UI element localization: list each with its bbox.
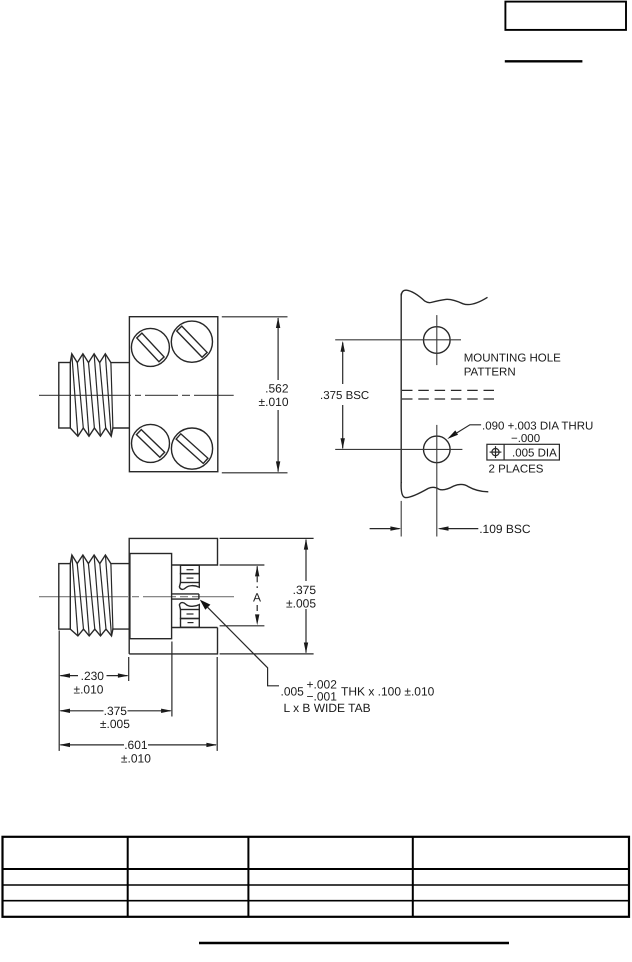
svg-text:±.005: ±.005 xyxy=(286,597,316,611)
bottom dimensions of view2 xyxy=(59,631,217,751)
dimension .375 BSC xyxy=(342,343,344,449)
svg-text:±.010: ±.010 xyxy=(121,751,151,765)
dimension .562 ±.010 xyxy=(222,317,288,473)
title block box (top right, empty) xyxy=(505,2,626,30)
arrowheads .230 xyxy=(59,673,70,677)
bottom break wavy xyxy=(401,482,488,498)
svg-text:±.005: ±.005 xyxy=(100,717,130,731)
svg-text:.375: .375 xyxy=(293,583,317,597)
position symbol xyxy=(492,449,499,456)
ext line flange right xyxy=(216,657,218,751)
arrowhead .562 bottom xyxy=(276,461,280,472)
hole bottom crosshair xyxy=(335,448,462,450)
hole top crosshair xyxy=(335,339,461,341)
svg-text:MOUNTING HOLE: MOUNTING HOLE xyxy=(464,353,561,365)
panel dashed lines xyxy=(402,390,494,399)
flange outline xyxy=(129,538,217,654)
body rectangle view1 xyxy=(129,317,217,472)
dimension .375 ±.005 (side) xyxy=(220,538,314,654)
thread bottom profile side xyxy=(70,629,129,636)
svg-text:.375 BSC: .375 BSC xyxy=(320,390,369,402)
leader .090 xyxy=(447,430,458,439)
label .375 BSC xyxy=(318,384,369,405)
screw top-right xyxy=(171,321,212,362)
leader line to tab note xyxy=(207,607,279,686)
dimension A xyxy=(220,565,265,626)
arrowheads .375 xyxy=(59,709,70,713)
coupling cap rectangle xyxy=(59,363,71,429)
arrowhead .109 right xyxy=(438,526,449,530)
leader arrowhead at tab xyxy=(200,600,211,610)
svg-text:A: A xyxy=(253,590,261,604)
arrowhead .375 side top xyxy=(304,539,308,550)
svg-text:.601: .601 xyxy=(124,738,148,752)
screw bottom-left xyxy=(132,424,170,462)
header underline xyxy=(505,60,583,62)
svg-text:.090 +.003 DIA THRU: .090 +.003 DIA THRU xyxy=(482,420,593,432)
dim line .230 xyxy=(60,675,78,677)
svg-text:.005 DIA: .005 DIA xyxy=(512,447,557,459)
svg-text:±.010: ±.010 xyxy=(259,395,289,409)
footer rule xyxy=(199,942,509,945)
feature control frame xyxy=(487,444,560,460)
center tab xyxy=(172,594,199,599)
coupling cap rectangle side xyxy=(59,564,71,630)
panel edge extension xyxy=(400,501,402,537)
arrowhead .375 BSC top xyxy=(341,341,345,352)
barrel xyxy=(130,554,172,639)
arrowhead A top xyxy=(255,566,259,577)
label .375 ±.005 xyxy=(284,581,318,609)
panel edge line xyxy=(400,294,402,484)
top break wavy xyxy=(401,290,487,304)
arrowheads .601 xyxy=(59,743,70,747)
thread flank lines xyxy=(72,354,113,436)
label .562 ±.010 xyxy=(255,380,291,410)
svg-text:THK x .100 ±.010: THK x .100 ±.010 xyxy=(341,685,435,699)
mounting hole top xyxy=(424,327,451,354)
svg-text:−.000: −.000 xyxy=(511,433,540,445)
svg-text:PATTERN: PATTERN xyxy=(464,367,516,379)
ext line flange left xyxy=(128,657,130,681)
dimension .109 BSC xyxy=(370,528,479,530)
screw bottom-right xyxy=(171,428,212,469)
thread top profile side xyxy=(70,555,129,564)
svg-text:±.010: ±.010 xyxy=(74,682,104,696)
contact stack lower xyxy=(179,603,199,610)
svg-text:L x B WIDE TAB: L x B WIDE TAB xyxy=(284,701,371,715)
contact stack upper xyxy=(181,565,200,573)
thread flank lines side xyxy=(72,555,113,636)
thread top profile xyxy=(70,354,129,363)
ext line thread start xyxy=(58,631,60,751)
centerline view2 xyxy=(39,596,234,598)
arrowhead .375 BSC bottom xyxy=(341,438,345,449)
svg-text:.562: .562 xyxy=(265,382,289,396)
svg-text:.230: .230 xyxy=(81,669,105,683)
svg-text:2 PLACES: 2 PLACES xyxy=(489,463,544,475)
thread bottom profile xyxy=(70,428,129,436)
screw top-left xyxy=(131,328,169,366)
ext line barrel right xyxy=(171,642,173,717)
arrowhead .562 top xyxy=(276,317,280,328)
arrowhead .109 left xyxy=(390,526,401,530)
mounting hole bottom xyxy=(424,436,451,463)
arrowhead .375 side bottom xyxy=(304,643,308,654)
centerline view1 xyxy=(39,394,234,396)
svg-text:.109 BSC: .109 BSC xyxy=(479,522,531,536)
dim line .375 xyxy=(60,710,103,712)
dim line .601 xyxy=(60,744,124,746)
arrowhead A bottom xyxy=(255,614,259,625)
svg-text:.005: .005 xyxy=(281,685,305,699)
